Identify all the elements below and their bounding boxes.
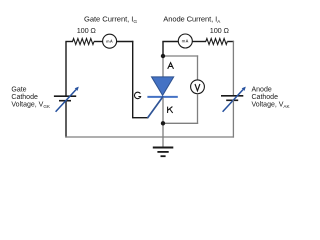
- wire: gate loop left vertical (battery to bottom corner): [65, 101, 67, 138]
- wire: right vertical lower (gray): [232, 100, 234, 137]
- node: cathode junction dot: [161, 121, 165, 125]
- wire: ammeter M1 to right corner of gate loop: [117, 41, 134, 43]
- wire: voltmeter branch vertical lower (gray): [197, 94, 199, 124]
- svg-text:Anode Current, IA: Anode Current, IA: [163, 14, 221, 25]
- wire: gate loop right vertical down: [132, 41, 134, 119]
- svg-text:Cathode: Cathode: [252, 94, 279, 101]
- svg-text:Gate: Gate: [11, 86, 26, 93]
- battery V1 short plate: [59, 100, 71, 102]
- svg-text:100 Ω: 100 Ω: [77, 26, 97, 35]
- wire: anode top lead to ammeter M2: [162, 41, 178, 43]
- voltmeter V (circle): [191, 80, 205, 94]
- resistor R1 100 ohm (gate) zigzag: [73, 39, 95, 45]
- svg-text:Anode: Anode: [252, 86, 272, 93]
- variable source arrow V2 (blue): [223, 87, 246, 112]
- battery V2 short plate: [226, 99, 238, 101]
- wire: anode node to voltmeter branch (gray horizontal): [163, 55, 198, 57]
- svg-text:Cathode: Cathode: [11, 94, 38, 101]
- wire: gate loop bottom horizontal to gate lead: [133, 117, 149, 119]
- battery V1 long plate (gate cathode source): [54, 95, 76, 97]
- thyristor cathode bar (blue): [147, 96, 177, 98]
- label G (gate): [134, 92, 140, 99]
- svg-text:100 Ω: 100 Ω: [210, 26, 230, 35]
- wire: voltmeter branch bottom horizontal to cathode node (gray): [163, 122, 198, 124]
- node: anode junction dot: [161, 54, 165, 58]
- wire: voltmeter branch vertical upper (gray): [197, 55, 199, 80]
- ammeter M1 (gate mA meter): [103, 34, 117, 48]
- thyristor gate lead diagonal (blue): [148, 96, 164, 118]
- battery V2 long plate (anode cathode source): [221, 95, 243, 97]
- wire: ammeter M2 to resistor R2: [192, 41, 206, 43]
- wire: anode lead from dot down to thyristor (gray): [162, 56, 164, 77]
- ground symbol: [153, 148, 174, 157]
- wire: anode node vertical up to top wire (black): [162, 42, 164, 57]
- resistor R2 100 ohm (anode) zigzag: [206, 39, 228, 45]
- wire: gate loop top horizontal, left lead to resistor R1: [65, 41, 73, 43]
- label A (anode): [168, 63, 174, 69]
- wire: right vertical upper (gray): [232, 41, 234, 96]
- thyristor SCR triangle (blue): [152, 77, 174, 96]
- svg-text:Gate Current, IG: Gate Current, IG: [84, 14, 137, 25]
- wire: resistor R2 to top-right corner: [227, 41, 234, 43]
- ammeter M2 (anode mA meter): [178, 34, 192, 48]
- variable source arrow V1 (blue): [56, 87, 79, 112]
- wire: resistor R1 to ammeter M1: [94, 41, 103, 43]
- label K (cathode): [168, 107, 173, 113]
- wire: gate loop left vertical (top to battery): [65, 42, 67, 97]
- wire: cathode lead down from bar to ground (gray): [162, 98, 164, 148]
- wire: bottom horizontal (gray): [65, 136, 234, 138]
